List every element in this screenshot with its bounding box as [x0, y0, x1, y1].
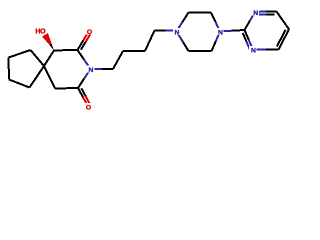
- bond CH2 c-d: [145, 31, 155, 52]
- bond C7-N8: [78, 50, 91, 69]
- double bond N1=C6 pyrimidine: [255, 12, 276, 15]
- double bond C7=O top: [78, 31, 91, 50]
- chemical structure: 6-hydroxybuspirone: [0, 0, 300, 121]
- bond CH2 a-b: [113, 51, 123, 69]
- bond C10-C5: [44, 66, 55, 89]
- bond C4-N3 pyrimidine: [253, 49, 279, 51]
- atom label N3 pyrimidine: [249, 46, 257, 55]
- bond BR-BL piperazine: [189, 50, 212, 52]
- svg-text:N: N: [175, 29, 180, 36]
- bond N4'-C TL piperazine: [177, 13, 189, 32]
- bond N1'-C2 pyrimidine link: [220, 30, 245, 31]
- double bond C9=O bottom: [78, 88, 90, 107]
- svg-text:N: N: [251, 48, 256, 55]
- bond TL-TR piperazine: [189, 12, 212, 14]
- svg-text:N: N: [253, 10, 258, 17]
- bond TR-N1' piperazine: [211, 13, 220, 32]
- double bond C5=C4 pyrimidine: [277, 29, 289, 49]
- bond N8-C9: [78, 69, 91, 88]
- atom label O top carbonyl: [85, 27, 93, 36]
- bond N1'-BR piperazine: [212, 31, 221, 51]
- atom label N1' piperazine: [216, 28, 224, 37]
- bond C6-C7: [54, 49, 78, 51]
- double bond N3=C2 pyrimidine: [243, 30, 253, 50]
- bond C6-C5 pyrimidine: [277, 12, 290, 30]
- bond CH2 b-c: [123, 50, 145, 52]
- cyclopentane ring: [9, 50, 45, 88]
- bond N8-CH2 a: [91, 68, 114, 70]
- atom label O bottom carbonyl: [84, 103, 92, 112]
- bond C9-C10: [55, 87, 78, 90]
- atom label HO hydroxyl: [34, 27, 47, 36]
- svg-text:HO: HO: [35, 29, 46, 36]
- bond C2-N1 pyrimidine: [245, 12, 256, 30]
- stereo wedge C6-OH: [42, 33, 54, 50]
- bond BL-N4' piperazine: [177, 31, 189, 51]
- atom label N4' piperazine: [173, 28, 181, 37]
- svg-text:O: O: [86, 105, 91, 112]
- bond C5-C6: [44, 50, 54, 66]
- svg-text:N: N: [89, 67, 94, 74]
- atom label N8 imide: [87, 65, 95, 74]
- atom label N1 pyrimidine: [251, 8, 259, 17]
- svg-text:N: N: [218, 29, 223, 36]
- bond CH2 d-N4': [155, 30, 177, 32]
- svg-text:O: O: [87, 29, 92, 36]
